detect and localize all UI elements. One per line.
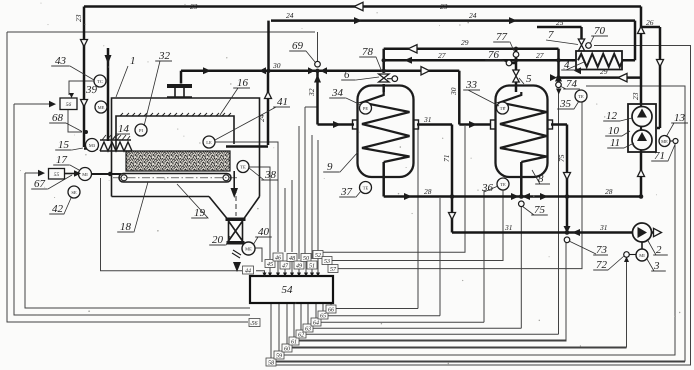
- svg-text:36: 36: [481, 182, 494, 194]
- svg-text:40: 40: [258, 226, 270, 238]
- svg-text:25: 25: [556, 18, 564, 27]
- svg-text:PE: PE: [363, 106, 369, 111]
- svg-text:58: 58: [268, 361, 274, 367]
- svg-text:10: 10: [608, 125, 620, 137]
- svg-text:54: 54: [282, 284, 294, 296]
- svg-text:73: 73: [596, 244, 608, 256]
- svg-text:39: 39: [85, 84, 98, 96]
- svg-text:34: 34: [331, 87, 344, 99]
- svg-text:M3: M3: [89, 143, 96, 148]
- svg-text:MI: MI: [82, 172, 88, 177]
- svg-text:7: 7: [548, 29, 554, 41]
- svg-text:PI: PI: [139, 128, 144, 133]
- svg-text:53: 53: [324, 259, 330, 265]
- svg-text:38: 38: [264, 169, 277, 181]
- svg-text:14: 14: [118, 123, 130, 135]
- svg-text:72: 72: [596, 259, 608, 271]
- svg-text:62: 62: [298, 333, 304, 339]
- svg-text:35: 35: [559, 98, 572, 110]
- svg-text:31: 31: [504, 223, 513, 232]
- svg-text:55: 55: [54, 172, 60, 178]
- svg-text:59: 59: [276, 354, 282, 360]
- svg-text:31: 31: [599, 223, 608, 232]
- svg-text:47: 47: [282, 263, 289, 270]
- svg-text:60: 60: [284, 347, 290, 353]
- svg-text:ME: ME: [245, 246, 252, 251]
- svg-text:61: 61: [291, 340, 297, 346]
- svg-text:28: 28: [605, 187, 613, 196]
- svg-text:32: 32: [307, 88, 316, 97]
- svg-text:5: 5: [526, 73, 532, 85]
- svg-text:56: 56: [66, 102, 72, 108]
- svg-text:23: 23: [74, 14, 83, 22]
- svg-text:50: 50: [303, 256, 309, 262]
- svg-text:76: 76: [488, 49, 500, 61]
- svg-text:ME: ME: [661, 139, 668, 144]
- svg-text:48: 48: [289, 255, 295, 262]
- svg-text:30: 30: [449, 87, 458, 96]
- svg-text:LE: LE: [206, 140, 212, 145]
- svg-text:TE: TE: [500, 106, 506, 111]
- svg-text:28: 28: [424, 187, 432, 196]
- svg-text:6: 6: [344, 69, 350, 81]
- svg-text:71: 71: [654, 150, 665, 162]
- svg-text:52: 52: [315, 253, 321, 259]
- svg-text:ME: ME: [98, 105, 105, 110]
- svg-text:56: 56: [252, 321, 258, 327]
- svg-text:45: 45: [267, 261, 273, 268]
- svg-text:41: 41: [277, 96, 288, 108]
- svg-text:TE: TE: [500, 182, 506, 187]
- svg-text:65: 65: [320, 314, 326, 320]
- svg-text:11: 11: [610, 137, 620, 149]
- svg-text:29: 29: [461, 38, 469, 47]
- svg-text:SE: SE: [71, 190, 77, 195]
- svg-text:69: 69: [292, 40, 304, 52]
- svg-text:4: 4: [564, 59, 570, 71]
- svg-text:2: 2: [656, 244, 662, 256]
- svg-text:70: 70: [594, 25, 606, 37]
- svg-text:MI: MI: [639, 253, 645, 258]
- svg-text:15: 15: [58, 139, 70, 151]
- svg-text:32: 32: [158, 50, 171, 62]
- svg-text:75: 75: [557, 154, 566, 162]
- svg-text:8: 8: [538, 173, 544, 185]
- svg-text:49: 49: [296, 263, 302, 270]
- svg-text:19: 19: [194, 207, 206, 219]
- svg-text:13: 13: [674, 112, 686, 124]
- svg-text:27: 27: [438, 51, 446, 60]
- svg-text:3: 3: [653, 260, 660, 272]
- svg-text:29: 29: [600, 67, 608, 76]
- svg-text:24: 24: [469, 11, 477, 20]
- svg-text:1: 1: [130, 55, 136, 67]
- svg-text:57: 57: [330, 267, 337, 273]
- svg-text:64: 64: [313, 320, 319, 327]
- svg-text:46: 46: [275, 255, 281, 262]
- svg-text:71: 71: [442, 155, 451, 163]
- svg-text:20: 20: [212, 234, 224, 246]
- svg-text:63: 63: [305, 327, 311, 333]
- svg-text:TE: TE: [363, 185, 369, 190]
- svg-text:27: 27: [536, 51, 544, 60]
- svg-text:23: 23: [631, 92, 640, 100]
- svg-text:24: 24: [286, 11, 294, 20]
- svg-text:77: 77: [496, 31, 508, 43]
- svg-text:67: 67: [34, 178, 46, 190]
- svg-text:26: 26: [646, 18, 654, 27]
- svg-text:17: 17: [56, 154, 68, 166]
- svg-text:51: 51: [309, 264, 315, 270]
- svg-text:66: 66: [328, 308, 334, 314]
- svg-text:12: 12: [606, 110, 618, 122]
- svg-text:TE: TE: [240, 164, 246, 169]
- svg-text:68: 68: [52, 112, 64, 124]
- svg-text:43: 43: [55, 55, 67, 67]
- svg-text:33: 33: [465, 79, 478, 91]
- svg-text:24: 24: [257, 114, 266, 122]
- svg-text:18: 18: [120, 221, 132, 233]
- svg-text:9: 9: [327, 161, 333, 173]
- svg-text:78: 78: [362, 46, 374, 58]
- svg-text:16: 16: [237, 77, 249, 89]
- svg-text:37: 37: [340, 186, 353, 198]
- svg-text:23: 23: [440, 2, 448, 11]
- svg-text:23: 23: [190, 2, 198, 11]
- svg-text:42: 42: [52, 203, 64, 215]
- svg-text:TC: TC: [97, 79, 103, 84]
- svg-text:44: 44: [245, 268, 251, 275]
- svg-text:TE: TE: [578, 94, 584, 99]
- svg-text:75: 75: [534, 204, 546, 216]
- svg-text:31: 31: [423, 115, 432, 124]
- svg-text:30: 30: [272, 61, 281, 70]
- svg-text:74: 74: [566, 78, 578, 90]
